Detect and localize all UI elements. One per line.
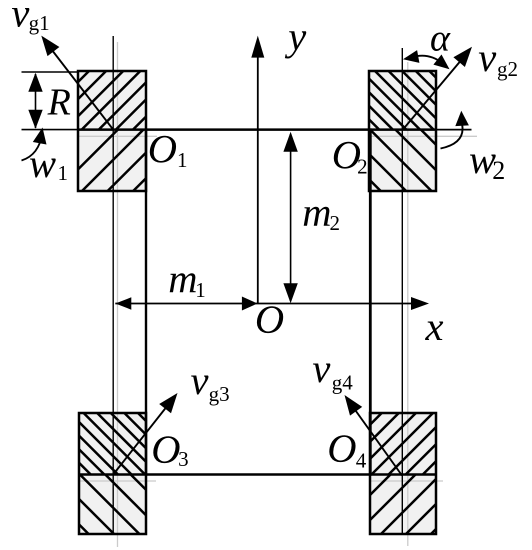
svg-text:m: m bbox=[168, 256, 197, 301]
svg-text:O: O bbox=[148, 127, 177, 172]
svg-text:4: 4 bbox=[356, 448, 367, 472]
svg-text:v: v bbox=[478, 35, 496, 80]
svg-text:y: y bbox=[284, 14, 306, 59]
svg-text:v: v bbox=[312, 346, 330, 391]
svg-text:2: 2 bbox=[492, 156, 505, 185]
svg-text:g2: g2 bbox=[497, 57, 518, 81]
svg-text:w: w bbox=[29, 141, 56, 186]
svg-text:1: 1 bbox=[195, 278, 206, 302]
svg-text:v: v bbox=[191, 358, 209, 403]
svg-text:g1: g1 bbox=[29, 11, 50, 35]
svg-text:1: 1 bbox=[177, 148, 188, 172]
svg-text:v: v bbox=[11, 0, 29, 36]
svg-text:O: O bbox=[255, 297, 284, 342]
svg-text:O: O bbox=[327, 426, 356, 471]
svg-text:g4: g4 bbox=[332, 371, 354, 395]
svg-text:α: α bbox=[430, 18, 451, 60]
svg-text:3: 3 bbox=[178, 447, 189, 471]
svg-text:O: O bbox=[151, 427, 180, 472]
svg-text:1: 1 bbox=[58, 161, 69, 185]
svg-text:g3: g3 bbox=[209, 382, 230, 406]
svg-text:2: 2 bbox=[330, 211, 341, 235]
svg-text:m: m bbox=[302, 189, 331, 234]
svg-text:x: x bbox=[425, 304, 444, 349]
svg-text:2: 2 bbox=[357, 155, 368, 179]
svg-text:R: R bbox=[47, 81, 71, 123]
